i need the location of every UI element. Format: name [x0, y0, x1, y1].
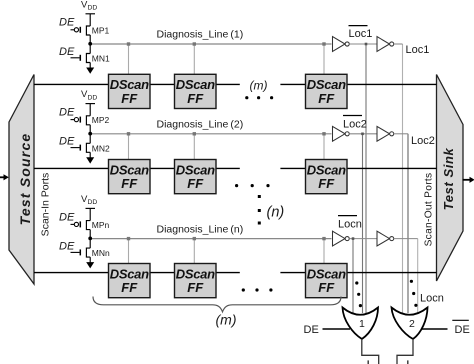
svg-text:Scan-In Ports: Scan-In Ports [40, 173, 52, 237]
svg-text:Locn: Locn [338, 218, 362, 230]
svg-text:MPn: MPn [92, 220, 110, 230]
svg-text:DE: DE [59, 136, 75, 148]
svg-text:FF: FF [318, 91, 335, 106]
svg-text:Loc2: Loc2 [411, 135, 435, 147]
svg-text:DScan: DScan [176, 162, 215, 177]
svg-text:DD: DD [88, 199, 98, 206]
svg-text:FF: FF [121, 280, 138, 295]
svg-text:DE: DE [59, 240, 75, 252]
svg-text:MNn: MNn [92, 248, 110, 258]
svg-text:FF: FF [121, 176, 138, 191]
svg-text:2: 2 [409, 318, 415, 330]
svg-text:FF: FF [121, 91, 138, 106]
svg-text:MN1: MN1 [92, 54, 110, 64]
svg-text:DScan: DScan [110, 162, 149, 177]
svg-text:Diagnosis_Line (1): Diagnosis_Line (1) [157, 29, 244, 41]
svg-text:FF: FF [318, 280, 335, 295]
svg-text:FF: FF [318, 176, 335, 191]
svg-text:Test Sink: Test Sink [441, 147, 456, 210]
svg-text:Scan-Out Ports: Scan-Out Ports [424, 173, 435, 247]
svg-text:Diagnosis_Line (n): Diagnosis_Line (n) [157, 223, 244, 235]
svg-text:(m): (m) [216, 312, 237, 328]
svg-text:DE: DE [59, 17, 75, 29]
svg-text:DScan: DScan [110, 77, 149, 92]
svg-text:DE: DE [304, 324, 319, 336]
svg-text:DScan: DScan [110, 266, 149, 281]
svg-text:1: 1 [359, 318, 365, 330]
svg-text:Loc1: Loc1 [406, 44, 430, 56]
svg-text:DD: DD [88, 5, 98, 12]
svg-text:DScan: DScan [307, 266, 346, 281]
svg-text:Diagnosis_Line (2): Diagnosis_Line (2) [157, 119, 244, 131]
svg-text:(n): (n) [267, 205, 285, 221]
svg-text:MP2: MP2 [92, 115, 110, 125]
svg-text:MN2: MN2 [92, 143, 110, 153]
svg-text:(m): (m) [250, 78, 268, 92]
svg-text:FF: FF [187, 280, 204, 295]
svg-text:DE: DE [455, 324, 470, 336]
svg-text:Loc1: Loc1 [349, 28, 373, 40]
svg-text:DScan: DScan [307, 162, 346, 177]
svg-text:FF: FF [187, 176, 204, 191]
svg-text:DD: DD [88, 94, 98, 101]
svg-text:DE: DE [59, 46, 75, 58]
svg-text:Test Source: Test Source [17, 133, 33, 226]
svg-text:Locn: Locn [420, 292, 444, 304]
svg-text:Loc2: Loc2 [343, 118, 367, 130]
svg-text:DE: DE [59, 211, 75, 223]
svg-text:DScan: DScan [307, 77, 346, 92]
svg-text:DScan: DScan [176, 77, 215, 92]
svg-text:FF: FF [187, 91, 204, 106]
svg-text:DScan: DScan [176, 266, 215, 281]
svg-text:MP1: MP1 [92, 25, 110, 35]
svg-text:DE: DE [59, 107, 75, 119]
